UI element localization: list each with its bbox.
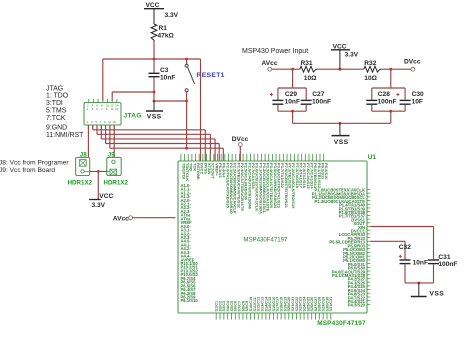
svg-text:P4.3/S20: P4.3/S20	[348, 303, 366, 308]
svg-text:U1: U1	[368, 154, 377, 161]
svg-text:HDR1X2: HDR1X2	[68, 179, 93, 186]
svg-text:VSS: VSS	[429, 291, 444, 298]
svg-text:10nF: 10nF	[285, 98, 300, 105]
svg-text:DVcc: DVcc	[232, 136, 249, 143]
svg-text:R32: R32	[364, 60, 376, 67]
svg-text:C32: C32	[399, 244, 411, 251]
svg-text:5:TMS: 5:TMS	[46, 107, 67, 114]
svg-text:10nF: 10nF	[413, 259, 428, 266]
svg-text:DVcc: DVcc	[404, 59, 421, 66]
svg-text:J8: J8	[80, 151, 87, 158]
svg-text:VSS: VSS	[147, 114, 162, 121]
svg-text:MSP430F47197: MSP430F47197	[243, 237, 288, 244]
svg-text:VSS: VSS	[334, 139, 349, 146]
svg-text:100nF: 100nF	[438, 261, 457, 268]
svg-text:R31: R31	[301, 60, 313, 67]
svg-text:100nF: 100nF	[312, 98, 331, 105]
svg-text:3.3V: 3.3V	[92, 202, 106, 209]
svg-text:VCC: VCC	[99, 193, 113, 200]
svg-text:3:TDI: 3:TDI	[46, 100, 63, 107]
svg-text:13: 13	[115, 107, 119, 111]
svg-text:AVcc: AVcc	[262, 60, 278, 67]
svg-text:C28: C28	[378, 91, 390, 98]
svg-text:J8: Vcc from Programer: J8: Vcc from Programer	[0, 159, 69, 166]
svg-text:1: TDO: 1: TDO	[46, 93, 69, 100]
svg-text:P8.3/S10: P8.3/S10	[324, 163, 329, 180]
svg-text:11: 11	[108, 120, 111, 124]
svg-text:10Ω: 10Ω	[304, 75, 317, 82]
svg-text:C3: C3	[160, 67, 169, 74]
svg-text:C30: C30	[412, 91, 424, 98]
svg-text:9:GND: 9:GND	[46, 125, 67, 132]
svg-text:C27: C27	[312, 91, 324, 98]
svg-text:10nF: 10nF	[160, 74, 175, 81]
svg-text:JTAG: JTAG	[124, 113, 142, 120]
svg-text:J9: J9	[108, 151, 115, 158]
svg-text:JTAG: JTAG	[46, 85, 63, 92]
svg-text:C29: C29	[285, 91, 297, 98]
svg-text:13: 13	[112, 120, 116, 124]
svg-text:C31: C31	[438, 254, 450, 261]
svg-text:MSP430 Power Input: MSP430 Power Input	[242, 48, 308, 55]
svg-text:MSP430F47197: MSP430F47197	[317, 320, 366, 327]
svg-text:3.3V: 3.3V	[345, 51, 359, 58]
svg-text:10Ω: 10Ω	[364, 75, 377, 82]
svg-text:J9: Vcc from Board: J9: Vcc from Board	[0, 167, 55, 174]
svg-text:100nF: 100nF	[378, 98, 397, 105]
svg-text:AVcc: AVcc	[113, 216, 129, 223]
svg-text:11: 11	[110, 107, 113, 111]
svg-text:10F: 10F	[412, 98, 423, 105]
svg-text:R1: R1	[159, 25, 168, 32]
svg-text:P6.1/S10: P6.1/S10	[181, 298, 199, 303]
svg-text:7:TCK: 7:TCK	[46, 115, 66, 122]
svg-text:3.3V: 3.3V	[165, 12, 179, 19]
svg-text:S31/C31: S31/C31	[329, 297, 333, 312]
svg-text:47kΩ: 47kΩ	[158, 33, 175, 40]
svg-text:HDR1X2: HDR1X2	[104, 179, 129, 186]
svg-text:11:NMI/RST: 11:NMI/RST	[46, 132, 84, 139]
